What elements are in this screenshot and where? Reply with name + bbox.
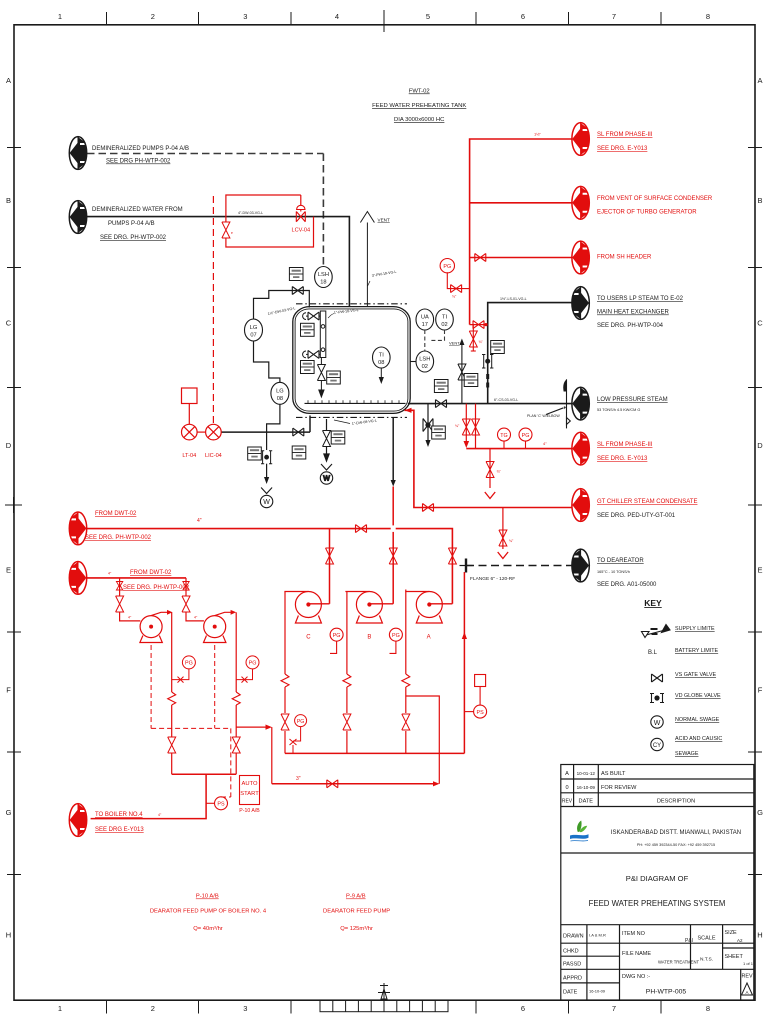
pump B suction (343, 592, 351, 754)
svg-text:A: A (427, 635, 431, 641)
label from vent condenser (597, 196, 713, 216)
svg-text:UA: UA (421, 315, 429, 321)
svg-text:Q= 125m³/hr: Q= 125m³/hr (340, 926, 373, 932)
svg-text:¾": ¾" (479, 340, 484, 344)
svg-text:CHKD: CHKD (563, 949, 579, 955)
svg-text:7: 7 (612, 12, 616, 21)
tag box LG07 loop (289, 268, 303, 281)
svg-text:FOR REVIEW: FOR REVIEW (601, 785, 637, 791)
tag box drain 2 (331, 431, 345, 444)
svg-text:P&I: P&I (685, 938, 693, 944)
connector GT chiller (572, 489, 589, 522)
svg-text:3: 3 (243, 12, 247, 21)
svg-text:E: E (757, 566, 762, 575)
tank drain 2 (320, 419, 332, 484)
connector to users (572, 287, 589, 320)
svg-text:PLAN 'C' W/ELBOW: PLAN 'C' W/ELBOW (527, 414, 560, 418)
label GT chiller (597, 499, 697, 519)
svg-text:02: 02 (422, 364, 428, 370)
svg-text:A: A (757, 76, 762, 85)
from SH header line (470, 254, 572, 262)
label from DWT 2 (108, 570, 190, 591)
svg-text:KEY: KEY (644, 598, 662, 608)
svg-text:6: 6 (521, 12, 525, 21)
svg-text:3: 3 (243, 1004, 247, 1013)
svg-text:07: 07 (250, 333, 256, 339)
revision table text (562, 771, 695, 805)
company logo (570, 821, 589, 842)
pump B (345, 592, 393, 641)
svg-text:SEE DRG. PH-WTP-002: SEE DRG. PH-WTP-002 (123, 585, 190, 591)
svg-text:DATE: DATE (579, 799, 594, 805)
svg-text:C: C (757, 319, 763, 328)
svg-text:VENT: VENT (449, 341, 460, 346)
PG between B and A (389, 628, 402, 653)
svg-text:SL FROM PHASE-III: SL FROM PHASE-III (597, 132, 653, 138)
connector from vent condenser (572, 186, 589, 219)
svg-text:SEE DRG E-Y013: SEE DRG E-Y013 (95, 827, 144, 833)
instrument LG 07 (245, 319, 263, 341)
svg-text:P-9 A/B: P-9 A/B (346, 894, 366, 900)
svg-text:D: D (757, 441, 763, 450)
svg-text:GT CHILLER STEAM CONDENSATE: GT CHILLER STEAM CONDENSATE (597, 499, 697, 505)
red drop 2 from steam line (472, 404, 480, 449)
crossover to 3 inch (236, 725, 272, 784)
label SL lower (597, 442, 653, 462)
label from DWT header (85, 511, 152, 541)
svg-text:16-10-09: 16-10-09 (589, 989, 606, 994)
svg-text:H: H (757, 931, 762, 940)
svg-text:LIC-04: LIC-04 (205, 453, 222, 459)
LIC-04 controller (205, 424, 222, 459)
connector to deareator (572, 549, 589, 582)
signal dashes instruments (425, 330, 445, 351)
3 inch line (272, 780, 440, 788)
svg-text:G: G (757, 808, 763, 817)
svg-text:A: A (745, 990, 748, 995)
svg-text:N.T.S.: N.T.S. (700, 957, 713, 963)
svg-text:SEWAGE: SEWAGE (675, 751, 699, 757)
svg-text:F: F (758, 686, 763, 695)
svg-text:FEED WATER PREHEATING TANK: FEED WATER PREHEATING TANK (372, 103, 466, 109)
svg-text:7: 7 (612, 1004, 616, 1013)
level gauge tube (320, 311, 326, 358)
svg-text:SHEET: SHEET (725, 954, 744, 960)
label to boiler (95, 812, 162, 833)
svg-text:DEARATOR FEED PUMP: DEARATOR FEED PUMP (323, 909, 390, 915)
svg-text:1½": 1½" (534, 132, 542, 137)
P10 PG 1 (172, 656, 196, 683)
svg-text:Q= 40m³/hr: Q= 40m³/hr (193, 926, 223, 932)
svg-text:START: START (240, 791, 259, 797)
LG08 drain leg (267, 404, 280, 450)
GT chiller condensate line (405, 408, 572, 512)
svg-text:FROM DWT-02: FROM DWT-02 (130, 570, 172, 576)
PG gauge SL line (519, 428, 532, 449)
suction bottom header (285, 752, 464, 754)
instrument LSH 18 (315, 267, 333, 288)
rev triangle symbol (742, 983, 753, 995)
svg-text:DEMINERALIZED PUMPS P-04 A/B: DEMINERALIZED PUMPS P-04 A/B (92, 146, 189, 152)
svg-text:A: A (565, 771, 569, 777)
svg-text:VENT: VENT (378, 218, 390, 223)
grid ticks right (748, 148, 762, 875)
key supply limit symbol (642, 625, 671, 638)
auto start box (239, 776, 260, 815)
DWT header 4 inch (87, 525, 456, 604)
red drain stub jog (469, 325, 483, 351)
key CY circle (651, 738, 663, 750)
LG07 bottom loop (254, 341, 280, 383)
svg-text:DWG NO :-: DWG NO :- (622, 974, 650, 980)
svg-text:C: C (306, 635, 311, 641)
SL phase III lower line (466, 448, 572, 450)
svg-text:LSH: LSH (318, 272, 329, 278)
instrument LSH 02 (410, 351, 433, 372)
svg-text:2: 2 (151, 1004, 155, 1013)
pump A suction (402, 590, 410, 754)
key globe valve (650, 694, 664, 703)
svg-text:FROM VENT OF SURFACE CONDENSER: FROM VENT OF SURFACE CONDENSER (597, 196, 713, 202)
svg-text:PUMPS P-04 A/B: PUMPS P-04 A/B (108, 221, 155, 227)
svg-text:TO USERS LP STEAM TO E-02: TO USERS LP STEAM TO E-02 (597, 296, 684, 302)
svg-text:8: 8 (706, 1004, 710, 1013)
svg-text:PH-WTP-005: PH-WTP-005 (646, 989, 687, 996)
connector to boiler (69, 804, 86, 837)
P10 PG 2 (236, 656, 259, 683)
tag box internal valve (327, 371, 341, 384)
svg-text:SEE DRG. PH-WTP-002: SEE DRG. PH-WTP-002 (85, 535, 152, 541)
svg-text:REV: REV (741, 974, 752, 980)
pump C feed drop (326, 529, 334, 604)
tag box drip leg (432, 426, 446, 439)
svg-text:A: A (6, 76, 11, 85)
svg-text:SEE DRG. A01-05000: SEE DRG. A01-05000 (597, 582, 657, 588)
svg-text:PH: +92 459 392344-50 FAX: +92: PH: +92 459 392344-50 FAX: +92 459 39271… (637, 843, 715, 847)
tube nozzle top (303, 312, 321, 320)
P10 pump 1 (140, 610, 173, 643)
svg-text:WATER TREATMENT: WATER TREATMENT (658, 960, 699, 965)
svg-text:SEE DRG. E-Y013: SEE DRG. E-Y013 (597, 146, 648, 152)
svg-text:AS BUILT: AS BUILT (601, 771, 626, 777)
svg-text:DATE: DATE (563, 990, 578, 996)
P10 pump 1 suction (116, 578, 141, 621)
pump A (405, 592, 452, 641)
svg-text:FILE NAME: FILE NAME (622, 951, 651, 957)
svg-text:1½"-LS-01-VG-L: 1½"-LS-01-VG-L (500, 297, 527, 301)
svg-text:16-10-09: 16-10-09 (577, 785, 596, 790)
svg-text:6"-CS-03-VG-L: 6"-CS-03-VG-L (494, 398, 518, 402)
grid ticks top (107, 10, 662, 32)
PG between C and B (330, 628, 343, 653)
svg-text:SCALE: SCALE (697, 936, 715, 942)
svg-text:53 TONS/h 4.5 KW/CM G: 53 TONS/h 4.5 KW/CM G (597, 408, 640, 412)
svg-text:BATTERY LIMITE: BATTERY LIMITE (675, 648, 719, 654)
label to users (597, 296, 684, 329)
svg-text:SEE DRG. PED-UTY-GT-001: SEE DRG. PED-UTY-GT-001 (597, 513, 676, 519)
svg-text:1: 1 (58, 12, 62, 21)
svg-text:¾": ¾" (452, 295, 457, 299)
svg-text:PG: PG (297, 719, 305, 725)
P10 discharge 1 (168, 612, 176, 774)
svg-text:H: H (6, 931, 11, 940)
svg-text:MAIN HEAT EXCHANGER: MAIN HEAT EXCHANGER (597, 310, 669, 316)
tag box drain leg (248, 447, 262, 460)
instrument TI 08 (373, 347, 391, 384)
tag box drain line (292, 446, 306, 459)
vent stub on steam line (458, 339, 466, 404)
globe valve to users riser (482, 355, 493, 369)
svg-text:e: e (231, 231, 233, 235)
to users LP steam line (488, 303, 572, 404)
pipe spec drain 2 (334, 419, 377, 426)
SL phase III top line (470, 139, 572, 325)
PS pressure switch right (464, 675, 486, 719)
svg-text:17: 17 (422, 322, 428, 328)
svg-text:PG: PG (392, 633, 400, 639)
signal dashed LIC (212, 196, 214, 424)
PS switch P10 (206, 797, 227, 810)
tag box steam valve (434, 380, 448, 393)
tag box vent stub (464, 374, 478, 387)
drawing title (589, 874, 726, 908)
svg-text:P&I DIAGRAM OF: P&I DIAGRAM OF (626, 874, 689, 883)
svg-text:FROM SH HEADER: FROM SH HEADER (597, 255, 652, 261)
svg-text:PG: PG (333, 633, 341, 639)
svg-text:DEMINERALIZED WATER FROM: DEMINERALIZED WATER FROM (92, 207, 183, 213)
svg-text:B.L: B.L (648, 650, 658, 656)
svg-text:P-10 A/B: P-10 A/B (239, 808, 260, 814)
tag box tube top (301, 323, 315, 336)
sparger (305, 400, 406, 403)
svg-text:4: 4 (335, 12, 339, 21)
connector from SH header (572, 241, 589, 274)
svg-text:G: G (6, 808, 12, 817)
label to deareator (597, 558, 657, 588)
svg-text:¾": ¾" (497, 470, 502, 474)
red drop 1 from steam line (455, 404, 470, 448)
svg-text:REV: REV (562, 799, 573, 805)
svg-text:4"-DW-03-VG-L: 4"-DW-03-VG-L (238, 211, 263, 215)
tube nozzle bottom (303, 350, 321, 358)
svg-text:TI: TI (442, 315, 447, 321)
P10 discharge 2 (232, 612, 240, 774)
arrow + funnel W drain leg (260, 477, 272, 508)
svg-text:TI: TI (379, 353, 384, 359)
svg-text:D: D (6, 441, 12, 450)
connector demi pumps (69, 137, 86, 170)
pump A recirc (406, 696, 440, 784)
svg-text:PG: PG (249, 661, 257, 667)
svg-text:PG: PG (443, 264, 451, 270)
svg-text:LG: LG (250, 325, 258, 331)
svg-text:SIZE: SIZE (725, 930, 738, 936)
P10 pump 2 (204, 610, 237, 643)
svg-text:LOW PRESSURE STEAM: LOW PRESSURE STEAM (597, 397, 668, 403)
svg-text:TO DEAREATOR: TO DEAREATOR (597, 558, 644, 564)
svg-text:FROM DWT-02: FROM DWT-02 (95, 511, 137, 517)
instrument UA 17 (416, 309, 434, 330)
tag box to users riser (491, 341, 505, 354)
to deareator dashed line (466, 565, 572, 567)
drip leg ball valve (423, 404, 433, 440)
svg-text:5: 5 (426, 12, 430, 21)
grid numbers bottom (58, 1004, 710, 1013)
svg-text:08: 08 (277, 396, 283, 402)
svg-text:¾": ¾" (509, 539, 514, 543)
tank FWT-02 shell (293, 304, 410, 418)
tank title text (372, 89, 466, 124)
svg-text:TG: TG (500, 433, 508, 439)
svg-text:SEE DRG. PH-WTP-002: SEE DRG. PH-WTP-002 (100, 235, 167, 241)
svg-text:DEARATOR FEED PUMP OF BOILER N: DEARATOR FEED PUMP OF BOILER NO. 4 (150, 909, 267, 915)
svg-text:ISKANDERABAD DISTT. MIANWALI,: ISKANDERABAD DISTT. MIANWALI, PAKISTAN (611, 830, 741, 836)
svg-text:LT-04: LT-04 (182, 453, 196, 459)
arrow drip leg (425, 440, 430, 447)
title block frame (561, 765, 754, 1001)
key gate valve (652, 674, 663, 682)
svg-text:PG: PG (185, 661, 193, 667)
svg-text:B: B (6, 196, 11, 205)
connector low pressure steam (572, 387, 589, 420)
svg-text:E: E (6, 566, 11, 575)
svg-text:FWT-02: FWT-02 (409, 89, 430, 95)
svg-text:ITEM NO: ITEM NO (622, 931, 646, 937)
signal dashed demi pumps (87, 154, 323, 267)
connector SL phase III top (572, 123, 589, 156)
svg-text:NORMAL SWAGE: NORMAL SWAGE (675, 717, 720, 723)
PG on SH branch (440, 259, 470, 299)
svg-text:PG: PG (522, 433, 530, 439)
label SL top (597, 132, 653, 152)
svg-text:PS: PS (217, 802, 225, 808)
tank internal valve (317, 358, 325, 398)
svg-text:C: C (6, 319, 12, 328)
drain line LT (221, 416, 310, 437)
svg-text:FEED WATER PREHEATING SYSTEM: FEED WATER PREHEATING SYSTEM (589, 899, 726, 908)
svg-text:PASSD: PASSD (563, 962, 581, 968)
instrument LG 08 (271, 382, 289, 404)
P10 supply line (87, 577, 186, 579)
svg-text:FLANGE 6" - 120-RF: FLANGE 6" - 120-RF (470, 576, 515, 582)
red drop from SL line (485, 449, 502, 499)
svg-text:2: 2 (151, 12, 155, 21)
label demi water (92, 207, 183, 241)
vent stack (360, 212, 374, 308)
key W circle (651, 716, 663, 728)
grid letters right (757, 76, 763, 940)
svg-text:4": 4" (197, 518, 202, 524)
svg-text:SL FROM PHASE-III: SL FROM PHASE-III (597, 442, 653, 448)
flange symbol (460, 559, 473, 573)
svg-text:VS GATE VALVE: VS GATE VALVE (675, 672, 716, 678)
pump C suction (281, 592, 289, 754)
company name (611, 830, 741, 847)
connector SL phase III lower (572, 432, 589, 465)
svg-text:02: 02 (441, 322, 447, 328)
svg-text:EJECTOR OF TURBO GENERATOR: EJECTOR OF TURBO GENERATOR (597, 210, 697, 216)
TG gauge SL line (498, 428, 511, 449)
pipe spec tube (328, 308, 359, 318)
battery limit dashes riser (486, 374, 489, 388)
svg-text:DRAWN: DRAWN (563, 934, 584, 940)
svg-text:B: B (757, 196, 762, 205)
LG07 top loop (254, 287, 310, 320)
P10 pump 2 suction (182, 578, 204, 621)
svg-text:LG: LG (276, 388, 284, 394)
label low pressure steam (597, 397, 668, 412)
discharge riser to flange (462, 572, 467, 753)
title block bottom text (563, 930, 754, 996)
connector from DWT 2 (69, 562, 86, 595)
svg-text:PS: PS (476, 710, 484, 716)
svg-text:8: 8 (706, 12, 710, 21)
svg-text:VD GLOBE VALVE: VD GLOBE VALVE (675, 693, 721, 699)
svg-text:4": 4" (543, 441, 547, 446)
P10 discharge header (91, 774, 237, 818)
tag box tube bottom (301, 361, 315, 374)
svg-text:B: B (367, 635, 371, 641)
svg-text:DIA 3000x6000 HC: DIA 3000x6000 HC (394, 117, 445, 123)
svg-text:0: 0 (565, 785, 568, 791)
instrument TI 02 (436, 309, 454, 330)
svg-text:A2: A2 (737, 938, 743, 943)
grid ticks left (5, 148, 22, 875)
svg-text:SUPPLY LIMITE: SUPPLY LIMITE (675, 626, 715, 632)
grid numbers top (58, 12, 710, 21)
svg-text:ACID AND CAUSIC: ACID AND CAUSIC (675, 736, 722, 742)
svg-text:6: 6 (521, 1004, 525, 1013)
from vent condenser line (470, 202, 572, 204)
svg-text:165°C - 10 TONS/h: 165°C - 10 TONS/h (597, 570, 630, 574)
svg-text:DESCRIPTION: DESCRIPTION (657, 799, 695, 805)
grid letters left (6, 76, 12, 940)
red jog to users riser (470, 321, 488, 329)
svg-text:10-01-12: 10-01-12 (577, 771, 596, 776)
svg-text:1 of 1: 1 of 1 (743, 961, 754, 966)
connector from DWT header (69, 512, 86, 545)
svg-text:W: W (654, 720, 661, 727)
svg-text:P-10 A/B: P-10 A/B (196, 894, 219, 900)
svg-text:1: 1 (58, 1004, 62, 1013)
connector demi water (69, 201, 86, 234)
LT-04 transmitter (182, 388, 206, 459)
key labels (675, 626, 722, 757)
battery limit flag steam (546, 379, 570, 428)
svg-text:18: 18 (320, 280, 326, 286)
pump group labels (150, 894, 390, 933)
svg-text:I.A & M.R: I.A & M.R (589, 933, 606, 938)
svg-text:F: F (6, 686, 11, 695)
red drop from GT line (498, 508, 514, 559)
svg-text:LSH: LSH (419, 357, 430, 363)
scale bar (320, 983, 448, 1012)
pipe spec vent (368, 270, 397, 286)
dashed auto start signals (151, 645, 231, 797)
PG at header left (290, 715, 307, 754)
svg-text:TO BOILER NO.4: TO BOILER NO.4 (95, 812, 143, 818)
svg-text:CY: CY (653, 743, 661, 749)
svg-text:SEE DRG. E-Y013: SEE DRG. E-Y013 (597, 456, 648, 462)
main LP steam line (408, 400, 572, 408)
svg-text:3": 3" (296, 776, 301, 782)
tank drain to pumps black part (391, 417, 396, 487)
LCV-04 control valve assembly (222, 195, 314, 247)
svg-text:APPRD: APPRD (563, 976, 582, 982)
svg-text:SEE DRG PH-WTP-002: SEE DRG PH-WTP-002 (106, 159, 171, 165)
tank drain red continuation (389, 487, 397, 604)
feed water line (87, 217, 349, 307)
